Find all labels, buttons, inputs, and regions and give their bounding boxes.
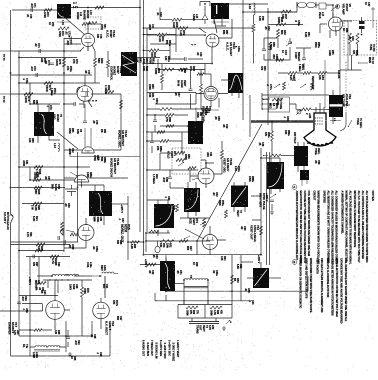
- wire x170 y170: [170, 170, 184, 188]
- wire y44 mid: [150, 43, 176, 45]
- label C88: [68, 244, 75, 250]
- crt neck dots: [315, 117, 323, 124]
- wire v15 bottom: [64, 241, 86, 248]
- gnd x70 y352: [68, 352, 72, 356]
- label x120 y222: [118, 218, 124, 223]
- svg-text:VERT OSC: VERT OSC: [223, 158, 227, 174]
- resistor v x261 y230: [260, 226, 263, 235]
- dashed box top right: [344, 21, 377, 56]
- label left edge1: [2, 96, 4, 103]
- label x36 y284: [34, 280, 40, 288]
- transformer vert block B7: [188, 121, 203, 144]
- tube V9 video amp: [329, 17, 343, 31]
- resistor y83: [44, 82, 53, 85]
- B11 stubs: [298, 142, 304, 172]
- label c5 cluster: [76, 129, 106, 135]
- arrow defl yoke: [348, 118, 362, 129]
- resistor v x196 y80: [200, 84, 203, 94]
- V10B stubs: [190, 163, 222, 188]
- svg-text:CIRCLED LETTERS INDICATE ALIGN: CIRCLED LETTERS INDICATE ALIGNMENT AND: [320, 258, 323, 313]
- label T3 coil: [189, 275, 193, 279]
- svg-text:8 AGC BUS: 8 AGC BUS: [146, 343, 149, 357]
- svg-text:.0015: .0015: [148, 24, 151, 31]
- resistor v x253 y24: [252, 24, 255, 32]
- wire y104 box: [155, 93, 196, 105]
- svg-text:.047: .047: [162, 177, 166, 183]
- wire v14a left: [64, 149, 82, 151]
- coil right top: [92, 272, 118, 298]
- notes paragraph 2: [295, 191, 347, 324]
- label C71 B1: [30, 3, 36, 8]
- label R60: [158, 36, 165, 43]
- vert wire x95: [94, 51, 96, 83]
- label x74 y58: [72, 59, 78, 64]
- label x66 y208: [64, 203, 70, 208]
- svg-text:L16: L16: [248, 4, 252, 9]
- transformer horiz osc block B4: [34, 112, 54, 136]
- resistor y141 mid: [160, 140, 169, 143]
- svg-text:COIL RESISTANCES NOT SHOWN ARE: COIL RESISTANCES NOT SHOWN ARE UNDER ONE…: [307, 191, 310, 257]
- wire vertical x232 low: [231, 255, 233, 318]
- svg-text:470K: 470K: [33, 172, 37, 180]
- svg-text:MAIN: MAIN: [368, 57, 371, 63]
- label B6 col: [109, 66, 123, 81]
- label +405 bus: [28, 277, 31, 285]
- svg-text:TUBE: TUBE: [369, 44, 371, 51]
- vert wire x30 y167: [29, 167, 31, 180]
- wire x253 low: [253, 32, 255, 64]
- resistor y94: [24, 93, 33, 96]
- dotted v x346: [345, 62, 347, 112]
- label R88: [34, 189, 41, 195]
- wire x162: [161, 64, 163, 91]
- B12 stubs: [271, 158, 280, 194]
- wire y70 right: [340, 69, 362, 71]
- svg-text:SYNC AND DEFLECTION CIRCUITS: SYNC AND DEFLECTION CIRCUITS: [305, 258, 308, 299]
- label x282 y36: [280, 30, 286, 35]
- svg-text:7 VIDEO OUT: 7 VIDEO OUT: [150, 340, 153, 356]
- wire x272 v: [271, 122, 273, 156]
- resistor y69 b: [179, 68, 188, 71]
- vert x170: [169, 44, 171, 59]
- vert coil x253: [254, 3, 256, 24]
- label top right corner: [364, 2, 370, 7]
- wire y104: [64, 103, 84, 105]
- capacitor C74 y51: [39, 49, 41, 53]
- resistor v x278 y29: [277, 29, 280, 38]
- wire B4 stubs: [38, 104, 60, 143]
- transformer sync block B3: [228, 73, 243, 93]
- wire horizontal y57: [19, 57, 77, 59]
- svg-text:METER HAVING 11 MEGOHM INPUT R: METER HAVING 11 MEGOHM INPUT RESISTANCE: [353, 191, 356, 248]
- svg-text:NOTES: NOTES: [371, 191, 375, 201]
- svg-text:15K: 15K: [66, 66, 69, 71]
- wire horizontal y94 right: [91, 93, 121, 95]
- resistor box r1: [186, 306, 198, 309]
- label damper col: [8, 322, 18, 335]
- picture tube V19: [304, 113, 336, 146]
- B9 stubs: [158, 200, 168, 236]
- wire top horizontal y7: [71, 7, 140, 9]
- resistor y256: [50, 255, 59, 258]
- wire flyback drops: [19, 257, 58, 296]
- svg-text:.03: .03: [64, 203, 67, 207]
- svg-text:47K: 47K: [264, 132, 267, 137]
- wire diag b4 v14a: [57, 132, 78, 149]
- wire stub y44: [64, 43, 81, 45]
- svg-text:.25: .25: [152, 254, 155, 258]
- svg-text:10KV: 10KV: [100, 265, 102, 271]
- B13 stubs: [165, 258, 167, 301]
- resistor v x95 y60: [94, 58, 97, 67]
- wire y270 right: [269, 277, 281, 279]
- tube V17 6AX4GT damper: [46, 301, 65, 320]
- wire horizontal y203 left: [22, 203, 64, 205]
- wire y233 center: [146, 232, 170, 234]
- svg-text:100K: 100K: [328, 50, 331, 56]
- wire vertical x243 top: [242, 0, 244, 120]
- svg-text:.0039: .0039: [68, 148, 71, 155]
- coil flyback top: [37, 274, 92, 276]
- label V15 col: [93, 217, 131, 244]
- tube V14B 6SN7GT horiz disch: [75, 175, 89, 182]
- label C60: [162, 177, 169, 183]
- wire vertical x241 low: [240, 255, 242, 301]
- pot arrow vert size: [200, 218, 206, 227]
- wire horizontal y318 box: [178, 317, 232, 319]
- label vert size: [189, 218, 199, 225]
- wire y141: [147, 132, 182, 152]
- wire vertical x155 low: [154, 293, 156, 301]
- sync clip stubs: [196, 74, 228, 107]
- wire horizontal y304 box: [178, 304, 232, 306]
- dashed box vert lock: [172, 148, 201, 174]
- label x292 y136: [293, 132, 296, 144]
- svg-text:CONT: CONT: [294, 52, 297, 59]
- label V9 col: [342, 4, 352, 15]
- svg-text:.003: .003: [206, 152, 209, 157]
- wire coils bottom: [30, 346, 66, 348]
- label x296 y56: [294, 52, 300, 62]
- peaking coil ellipses: [298, 2, 316, 7]
- label R64: [154, 68, 161, 74]
- svg-text:WAVEFORM MEASUREMENTS SHOWN WI: WAVEFORM MEASUREMENTS SHOWN WITH COLD OS…: [317, 191, 320, 265]
- label x306 y36: [304, 32, 310, 37]
- svg-text:8.2K: 8.2K: [32, 216, 35, 221]
- label box r1: [186, 310, 198, 315]
- svg-text:.002: .002: [272, 54, 275, 59]
- svg-text:150K: 150K: [154, 68, 158, 74]
- wire box stubs: [184, 300, 216, 322]
- svg-text:4.7K: 4.7K: [13, 330, 16, 335]
- label y158: [97, 157, 106, 163]
- B15 stubs: [333, 90, 350, 124]
- wire horizontal y300 center: [155, 300, 252, 302]
- label V14A col: [118, 130, 128, 148]
- wire y69 mid: [158, 69, 205, 71]
- wire x100 top: [104, 276, 106, 298]
- wire vertical x110 bottom: [109, 329, 111, 356]
- wire vertical x266 mid: [266, 152, 268, 265]
- svg-text:.0082: .0082: [22, 160, 25, 167]
- svg-text:470: 470: [260, 66, 263, 71]
- label R77: [45, 85, 52, 93]
- vert x176 low: [175, 44, 177, 52]
- label x330 y56: [328, 50, 334, 56]
- wire vertical x269 mid: [269, 152, 271, 265]
- B10 stubs: [234, 182, 245, 212]
- label V13A col: [106, 30, 116, 38]
- svg-text:VERT CENT: VERT CENT: [311, 76, 314, 90]
- tube V11 6BE6 sync clip: [204, 87, 218, 101]
- wire horizontal y132 mid: [147, 131, 188, 133]
- label R78: [24, 96, 31, 104]
- circled A note: [292, 185, 297, 190]
- junction y241 dots: [145, 232, 198, 242]
- svg-text:18K: 18K: [318, 75, 322, 80]
- svg-text:TO PIX: TO PIX: [372, 44, 374, 52]
- tube V13A 6CM7 AFC: [82, 34, 95, 47]
- capacitor x152 y142: [150, 141, 154, 143]
- legend wiring list: [142, 340, 179, 361]
- svg-text:ALL VOLTAGE MEASUREMENTS TO BE: ALL VOLTAGE MEASUREMENTS TO BE MADE WITH…: [349, 191, 352, 265]
- resistor R73 top: [44, 9, 52, 12]
- label B15 col: [342, 94, 352, 107]
- resistor y203: [33, 202, 42, 205]
- label V10B col: [223, 158, 233, 174]
- svg-text:C 7: C 7: [73, 2, 77, 5]
- wire bottom x19 drop: [18, 330, 20, 336]
- capacitor C72: [70, 37, 72, 41]
- label x216 y120: [214, 116, 220, 121]
- resistor v x226 y212: [225, 210, 228, 218]
- wire y330: [19, 329, 52, 331]
- label x310 y80: [311, 76, 314, 90]
- svg-text:.01: .01: [156, 12, 159, 16]
- svg-text:470: 470: [32, 262, 35, 267]
- resistor y180: [33, 179, 41, 182]
- label cluster right2: [269, 42, 288, 55]
- wire horizontal y280 coilbase: [175, 283, 184, 285]
- resistor v x222 y150: [221, 150, 224, 159]
- svg-text:+405 V: +405 V: [120, 205, 124, 214]
- resistor y69 a: [163, 68, 174, 71]
- svg-text:470K: 470K: [93, 155, 96, 161]
- label R75: [55, 59, 62, 67]
- wire vertical x268 top: [267, 8, 269, 125]
- wire stub V13A top: [87, 24, 89, 33]
- arrow anode left: [263, 99, 268, 101]
- svg-text:60 CYCLES AC: 60 CYCLES AC: [6, 212, 9, 230]
- wire x304: [296, 48, 311, 70]
- label r x272: [264, 132, 269, 138]
- svg-text:FIL: FIL: [22, 344, 25, 348]
- wire y95 right: [262, 94, 329, 96]
- wire x155: [154, 115, 156, 132]
- wire x82: [81, 280, 83, 336]
- svg-text:110-125 V: 110-125 V: [3, 212, 6, 224]
- svg-text:INDICATE CLOCKWISE ROTATION: INDICATE CLOCKWISE ROTATION: [326, 258, 329, 297]
- block B11 yoke: [294, 146, 308, 166]
- svg-text:27K: 27K: [156, 146, 159, 151]
- wire diag B2 to V10A: [214, 19, 217, 33]
- wire horizontal y311 left: [0, 310, 43, 312]
- coil bottom1: [35, 346, 47, 348]
- wire vertical x261 mid: [260, 148, 262, 255]
- transformer horiz out block B5: [89, 191, 112, 216]
- resistor in dbox3: [188, 167, 196, 170]
- wire y185 b5: [78, 184, 104, 186]
- long diagonal yoke lead: [197, 124, 262, 241]
- label L20 right: [100, 265, 106, 271]
- svg-text:.05: .05: [176, 270, 179, 274]
- resistor h y283 left: [37, 282, 46, 285]
- svg-text:L14: L14: [53, 143, 57, 148]
- label +245V: [257, 255, 261, 264]
- svg-text:15K: 15K: [159, 243, 162, 248]
- label x154 y258: [152, 254, 158, 259]
- svg-text:1 24: 1 24: [73, 6, 78, 9]
- svg-text:YOKE: YOKE: [356, 118, 359, 125]
- wire x205 v y63-86: [204, 64, 206, 75]
- svg-text:CATHODE RAY TUBE AND ANODE VOL: CATHODE RAY TUBE AND ANODE VOLTAGE MEASU…: [303, 191, 306, 263]
- dim mark B1: [57, 20, 71, 25]
- wire horizontal y167: [19, 166, 90, 168]
- wire x261 stubs: [251, 196, 261, 220]
- wire y115: [147, 114, 188, 116]
- label x238 y214: [236, 210, 242, 217]
- label x154 y178: [152, 174, 158, 184]
- capacitor v15 left: [64, 240, 66, 244]
- label c89 cluster: [35, 287, 43, 292]
- wire horizontal y180: [30, 179, 75, 181]
- label R82: [104, 85, 111, 95]
- svg-text:.02: .02: [212, 192, 215, 196]
- big capacitor C84: [51, 184, 78, 192]
- notes paragraph 1: [313, 191, 376, 266]
- wire vertical x42 bottom: [42, 304, 44, 312]
- label x178 y276: [176, 270, 182, 275]
- wire y50: [144, 49, 171, 51]
- node dots left mid: [10, 166, 65, 188]
- wire x373 top: [371, 7, 375, 21]
- resistor v x272 y131: [271, 131, 274, 141]
- T3 core under coil: [184, 286, 208, 287]
- svg-text:5KV: 5KV: [51, 184, 55, 189]
- svg-text:1K: 1K: [342, 28, 345, 31]
- resistor y109 right: [301, 108, 311, 111]
- resistor y155 right2: [270, 154, 281, 157]
- tube V10A 12AB7 AGC: [206, 34, 219, 47]
- resistor v x162 y80: [161, 74, 164, 83]
- tube V13B 6CM7 horiz control: [77, 86, 93, 102]
- label x262 y70: [260, 66, 266, 71]
- bracket L15 top: [200, 2, 210, 7]
- resistor v x270 y45: [269, 42, 272, 50]
- coil T3: [184, 279, 208, 281]
- wire x325 crt: [324, 60, 326, 108]
- core lines bottom: [34, 350, 60, 352]
- wire left border vertical lower: [10, 225, 12, 356]
- label C74: [44, 60, 51, 66]
- label R87: [33, 172, 40, 180]
- svg-text:WITH VERT: WITH VERT: [259, 193, 263, 208]
- resistor h y234: [70, 233, 78, 236]
- svg-text:+135: +135: [308, 113, 310, 119]
- yoke bar thick: [251, 120, 314, 122]
- svg-text:.047: .047: [74, 340, 77, 345]
- wire v14a right: [94, 94, 121, 150]
- svg-text:+405 V: +405 V: [28, 277, 31, 285]
- resistor row y30: [58, 27, 69, 30]
- wire x52 top: [54, 280, 56, 295]
- capacitor y256 left: [33, 255, 35, 259]
- AC interlock squiggle: [8, 214, 13, 225]
- wire bus vertical x140: [139, 0, 141, 232]
- resistor y50 left: [149, 49, 159, 52]
- svg-text:SYNC CLIP: SYNC CLIP: [201, 108, 205, 123]
- label R61: [150, 52, 157, 58]
- capacitor x304 y59: [302, 58, 306, 60]
- junction y121 dots: [261, 121, 297, 123]
- resistor v x284 y84: [283, 82, 286, 90]
- svg-text:.05: .05: [174, 92, 177, 96]
- svg-text:.01: .01: [348, 36, 351, 40]
- svg-text:10KV: 10KV: [69, 284, 72, 290]
- label R86: [35, 169, 42, 179]
- resistor y233: [149, 230, 159, 233]
- svg-text:1 MEG: 1 MEG: [104, 85, 108, 95]
- svg-text:.02: .02: [64, 31, 67, 35]
- svg-text:A.F.C.: A.F.C.: [106, 30, 110, 38]
- svg-text:2 W: 2 W: [31, 205, 35, 210]
- wire y107 h: [147, 108, 211, 110]
- svg-text:HORIZ: HORIZ: [76, 12, 79, 20]
- label dbox: [167, 151, 177, 158]
- svg-text:SIZE: SIZE: [189, 218, 193, 224]
- svg-text:.02: .02: [244, 288, 247, 292]
- svg-text:HOLD: HOLD: [167, 151, 171, 158]
- svg-text:CIRCUIT: CIRCUIT: [313, 191, 316, 201]
- label R63: [189, 66, 196, 71]
- wire inner-left vertical x19: [18, 51, 20, 330]
- label x188 y250: [186, 246, 192, 251]
- svg-text:4.5MC: 4.5MC: [192, 14, 195, 21]
- capacitor x19 y303: [17, 302, 21, 304]
- svg-text:A: A: [293, 185, 295, 189]
- svg-text:1K: 1K: [48, 22, 51, 25]
- B14 stubs: [247, 262, 261, 278]
- svg-text:470K: 470K: [83, 288, 86, 294]
- capacitor x264 y50: [262, 49, 266, 51]
- svg-text:9 AUDIO OUT: 9 AUDIO OUT: [142, 340, 145, 356]
- svg-text:.01: .01: [180, 68, 184, 72]
- wire bus vertical x147: [146, 28, 148, 232]
- wire x188: [190, 70, 192, 110]
- svg-text:120K: 120K: [24, 96, 28, 104]
- label cluster y244: [159, 243, 172, 249]
- svg-text:CATHODE RAY TUBE AND ANODE VOL: CATHODE RAY TUBE AND ANODE VOLTAGE MEASU…: [340, 258, 343, 324]
- resistor cluster y73: [288, 72, 327, 75]
- crt base pins: [316, 103, 324, 113]
- wire vertical x208 vert: [207, 280, 209, 305]
- svg-text:ALL CONDENSER CAPACITY TOLERAN: ALL CONDENSER CAPACITY TOLERANCES ±20% U…: [331, 191, 334, 264]
- arrow V10B: [192, 178, 198, 180]
- resistor y34 zig: [157, 33, 167, 36]
- label x95 y160: [93, 155, 99, 161]
- capacitor x170 y178: [168, 177, 172, 179]
- label x74 y288: [69, 284, 78, 290]
